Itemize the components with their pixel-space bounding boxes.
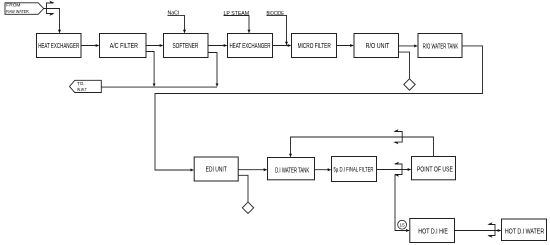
wire A/C filter drain: [146, 52, 154, 87]
box A/C FILTER: [100, 34, 147, 58]
svg-text:D.I WATER TANK: D.I WATER TANK: [275, 167, 309, 174]
wire EDI to DI water tank: [238, 169, 267, 171]
svg-text:EDI UNIT: EDI UNIT: [206, 167, 228, 174]
label LP STEAM: [224, 11, 250, 33]
utility-connection symbol S1: [47, 1, 55, 16]
wire softener drain: [208, 53, 217, 87]
wire DI tank to final filter: [315, 169, 331, 171]
svg-text:SOFTENER: SOFTENER: [173, 43, 199, 50]
wire micro filter to R/O unit: [337, 45, 354, 47]
wire recirculation POU to DI tank: [291, 137, 434, 157]
wire softener to HX2: [208, 45, 227, 47]
utility-connection symbol S3: [394, 162, 402, 177]
wire R/O unit to R/O water tank: [399, 45, 418, 47]
svg-text:HEAT EXCHANGER: HEAT EXCHANGER: [230, 43, 271, 50]
wire branch down to hot DI H/E: [395, 175, 409, 231]
wire R/O unit reject to drain diamond: [399, 52, 410, 79]
box HEAT EXCHANGER 2: [228, 34, 273, 58]
svg-text:POINT OF USE: POINT OF USE: [417, 167, 453, 174]
box MICRO FILTER: [292, 34, 337, 58]
svg-text:HOT D.I WATER: HOT D.I WATER: [505, 229, 544, 236]
box HEAT EXCHANGER 1: [37, 34, 82, 58]
svg-text:R/O WATER TANK: R/O WATER TANK: [423, 43, 459, 50]
box SOFTENER: [164, 34, 209, 58]
box POINT OF USE: [412, 157, 456, 180]
wire R/O water tank to EDI unit: [155, 46, 483, 170]
wire hot DI H/E to hot DI water: [455, 230, 501, 232]
svg-text:LP STEAM: LP STEAM: [224, 11, 250, 17]
svg-text:15: 15: [400, 223, 406, 228]
svg-text:W.W.T: W.W.T: [77, 87, 87, 92]
box HOT D.I WATER: [502, 219, 547, 241]
svg-text:TO.: TO.: [77, 81, 85, 86]
svg-text:HEAT EXCHANGER: HEAT EXCHANGER: [38, 43, 79, 50]
label BIOCIDE: [267, 11, 287, 45]
svg-text:RAW WATER: RAW WATER: [6, 9, 29, 15]
svg-text:A/C FILTER: A/C FILTER: [110, 43, 138, 50]
svg-text:MICRO FILTER: MICRO FILTER: [298, 43, 331, 50]
wire final filter to point of use: [377, 169, 411, 171]
drain diamond D1: [404, 79, 415, 90]
box DI WATER TANK: [268, 158, 315, 180]
wire waste water collection: [101, 86, 217, 88]
wire A/C filter to softener: [146, 45, 163, 47]
wire EDI reject to drain diamond: [238, 175, 248, 202]
box R/O UNIT: [354, 34, 399, 58]
wire HX2 to micro filter: [273, 45, 291, 47]
box EDI UNIT: [194, 157, 238, 181]
svg-text:FROM: FROM: [6, 3, 20, 9]
svg-text:R/O UNIT: R/O UNIT: [366, 43, 390, 50]
box 5u D.I FINAL FILTER: [332, 157, 377, 182]
pennant TO W.W.T: [70, 80, 102, 92]
box HOT D.I H/E: [410, 219, 455, 243]
svg-text:5µ D.I FINAL FILTER: 5µ D.I FINAL FILTER: [334, 167, 374, 174]
wire raw water inlet: [44, 9, 60, 33]
svg-text:HOT D.I H/E: HOT D.I H/E: [418, 228, 448, 235]
utility-connection symbol S4: [487, 222, 495, 237]
box R/O WATER TANK: [418, 34, 462, 58]
utility-connection symbol S2: [393, 129, 402, 144]
wire HX1 to A/C filter: [81, 45, 99, 47]
instrument bubble TI: [398, 220, 407, 229]
svg-text:BIOCIDE: BIOCIDE: [267, 11, 285, 17]
label NaCl: [168, 11, 185, 33]
pennant FROM RAW WATER: [5, 3, 44, 16]
drain diamond D2: [242, 202, 253, 213]
